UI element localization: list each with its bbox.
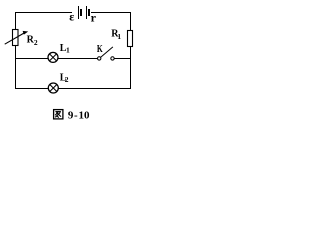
svg-text:ε: ε <box>69 10 74 24</box>
svg-text:K: K <box>97 44 103 55</box>
svg-text:1: 1 <box>117 32 121 41</box>
wire left vertical <box>15 12 16 89</box>
svg-text:r: r <box>91 11 97 25</box>
svg-text:1: 1 <box>66 46 70 55</box>
switch K contact circle left <box>98 57 101 60</box>
svg-text:-: - <box>74 109 78 121</box>
resistor R2 box <box>13 30 19 46</box>
resistor R1 box <box>128 31 133 47</box>
wire top-left segment <box>15 12 72 13</box>
wire right vertical <box>130 12 131 89</box>
switch K blade <box>101 47 113 57</box>
battery cell plate long 2 <box>86 6 87 19</box>
battery cell plate long 1 <box>78 6 79 19</box>
caption hanzi tu (drawn) <box>54 110 63 119</box>
battery cell plate short 2 <box>88 9 90 16</box>
rheostat R2 arrow <box>5 32 26 44</box>
lamp L2 <box>48 83 58 93</box>
wire top-right segment <box>91 12 131 13</box>
wire middle branch left <box>15 58 98 59</box>
wire bottom branch <box>15 88 131 89</box>
caption text 9-10 <box>68 109 90 121</box>
battery cell plate short 1 <box>80 9 82 16</box>
svg-text:2: 2 <box>65 75 69 84</box>
switch K contact circle right <box>111 57 114 60</box>
wire middle branch right <box>114 58 131 59</box>
svg-text:9: 9 <box>68 109 74 121</box>
lamp L1 <box>48 52 58 62</box>
svg-text:2: 2 <box>34 38 38 47</box>
svg-text:0: 0 <box>84 109 90 121</box>
